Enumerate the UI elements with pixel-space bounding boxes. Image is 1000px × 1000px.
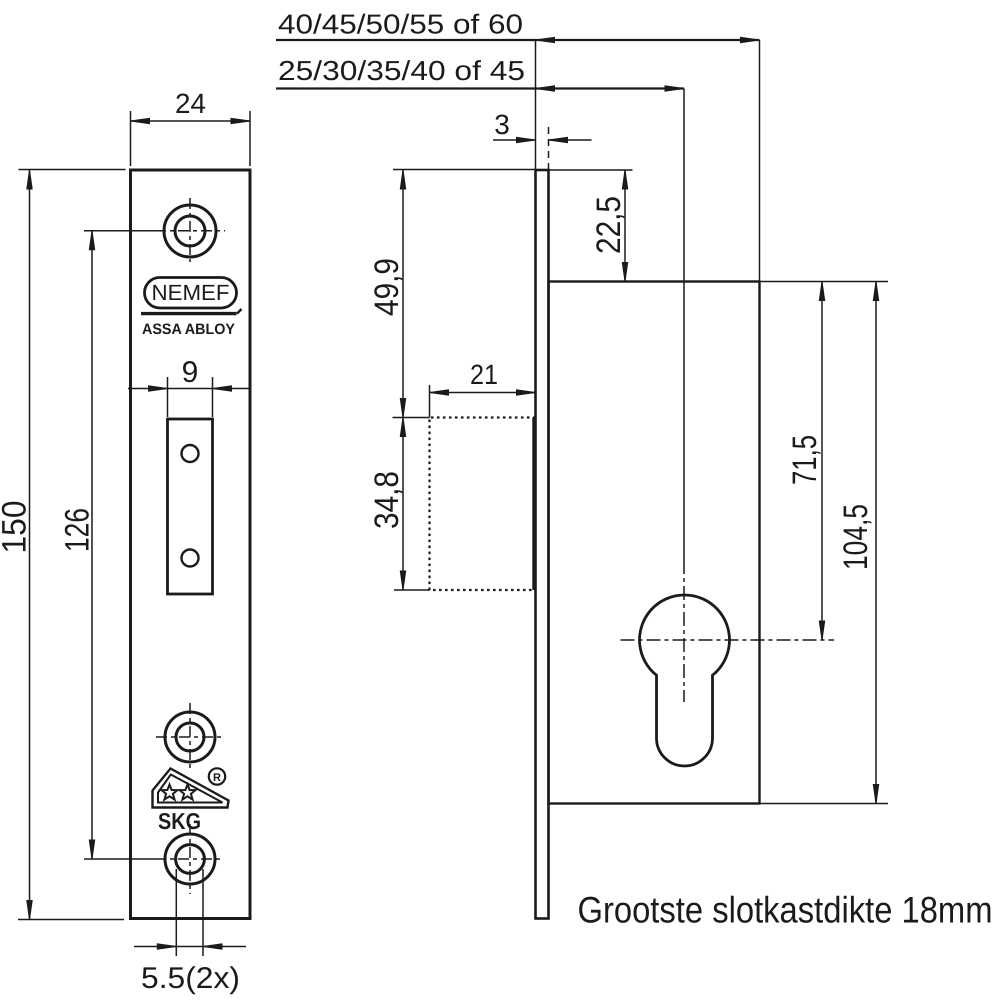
- dim 5.5 line: [134, 946, 246, 948]
- dim 24 line: [131, 120, 251, 122]
- dim 9 extension lines: [168, 377, 213, 417]
- svg-text:9: 9: [182, 356, 199, 389]
- plate right face tick (dashed): [548, 127, 550, 170]
- dim 49,9 line: [402, 170, 404, 418]
- dim 34,8 line: [402, 418, 404, 591]
- svg-text:24: 24: [175, 88, 206, 119]
- SKG registered mark: [209, 768, 225, 784]
- svg-text:49,9: 49,9: [368, 258, 406, 316]
- svg-text:150: 150: [0, 501, 34, 554]
- bolt box top extension: [393, 417, 430, 419]
- svg-text:R: R: [213, 772, 221, 784]
- svg-text:ASSA ABLOY: ASSA ABLOY: [142, 321, 235, 338]
- SKG star 2: [180, 785, 196, 800]
- cylinder vertical centerline: [683, 89, 685, 561]
- svg-text:5.5(2x): 5.5(2x): [141, 962, 240, 995]
- euro cylinder profile: [640, 595, 730, 766]
- bottom hole inner: [176, 845, 205, 874]
- SKG logo wedge inner: [158, 775, 223, 803]
- svg-text:SKG: SKG: [158, 808, 201, 834]
- ASSA ABLOY underline: [141, 312, 237, 315]
- svg-text:126: 126: [59, 508, 97, 552]
- top hole crosshair vertical: [189, 198, 191, 262]
- svg-text:71,5: 71,5: [786, 435, 824, 485]
- dim 49,9 top extension: [393, 169, 536, 171]
- dim 71,5 line: [821, 282, 823, 641]
- hole 3 inner: [176, 723, 204, 751]
- svg-text:21: 21: [470, 359, 498, 390]
- faceplate edge: [536, 170, 549, 919]
- bolt hole 2: [182, 550, 199, 567]
- dim 150 line: [29, 170, 31, 920]
- bolt box bottom extension: [394, 589, 430, 591]
- SKG star 1: [162, 785, 178, 800]
- bottom hole crosshair horizontal: [84, 858, 155, 860]
- cylinder horizontal centerline: [621, 639, 835, 641]
- top hole outer: [164, 205, 216, 257]
- dim 104,5 line: [875, 282, 877, 804]
- hole 3 crosshair: [156, 736, 224, 738]
- lock case: [549, 282, 760, 804]
- svg-text:34,8: 34,8: [368, 471, 406, 529]
- hole 3 outer: [165, 712, 215, 762]
- dim of45 line: [276, 87, 684, 89]
- plate left face extension up: [535, 40, 537, 170]
- dim 9 line: [128, 388, 250, 390]
- of60 right extension: [759, 40, 761, 282]
- SKG logo wedge outer: [153, 769, 229, 808]
- bottom hole outer: [165, 834, 215, 884]
- svg-text:104,5: 104,5: [837, 504, 875, 570]
- dim 3 lines and arrows: [493, 139, 535, 141]
- dim 21 line: [430, 392, 536, 394]
- bolt right face solid (against plate): [532, 418, 535, 591]
- svg-text:Grootste slotkastdikte 18mm: Grootste slotkastdikte 18mm: [578, 890, 993, 931]
- dim of60 line: [276, 39, 760, 41]
- dim 24 extension lines: [131, 111, 251, 166]
- dim 22,5 line: [624, 170, 626, 282]
- bottom hole crosshair vertical: [189, 824, 191, 894]
- svg-text:NEMEF: NEMEF: [152, 280, 230, 305]
- case top extension to right: [760, 281, 889, 283]
- bolt hole 1: [182, 445, 199, 462]
- dim 150 top extension: [19, 169, 126, 171]
- case bottom extension to right: [760, 803, 889, 805]
- NEMEF logo oval: [145, 278, 237, 309]
- dim 22,5 top extension: [549, 169, 633, 171]
- svg-text:25/30/35/40 of 45: 25/30/35/40 of 45: [278, 55, 525, 86]
- bolt cutout rectangle: [168, 419, 213, 594]
- dim 126 line: [91, 231, 93, 859]
- top hole inner: [175, 216, 205, 246]
- dim 21 extension: [429, 385, 431, 418]
- dashed bolt box: [430, 418, 536, 591]
- dim 150 bottom extension: [18, 919, 124, 921]
- svg-text:40/45/50/55 of 60: 40/45/50/55 of 60: [278, 9, 523, 40]
- faceplate outline: [131, 170, 251, 919]
- svg-text:3: 3: [494, 109, 510, 140]
- svg-text:22,5: 22,5: [590, 196, 628, 254]
- dim 5.5 extension lines: [176, 869, 203, 956]
- top hole crosshair horizontal: [84, 230, 155, 232]
